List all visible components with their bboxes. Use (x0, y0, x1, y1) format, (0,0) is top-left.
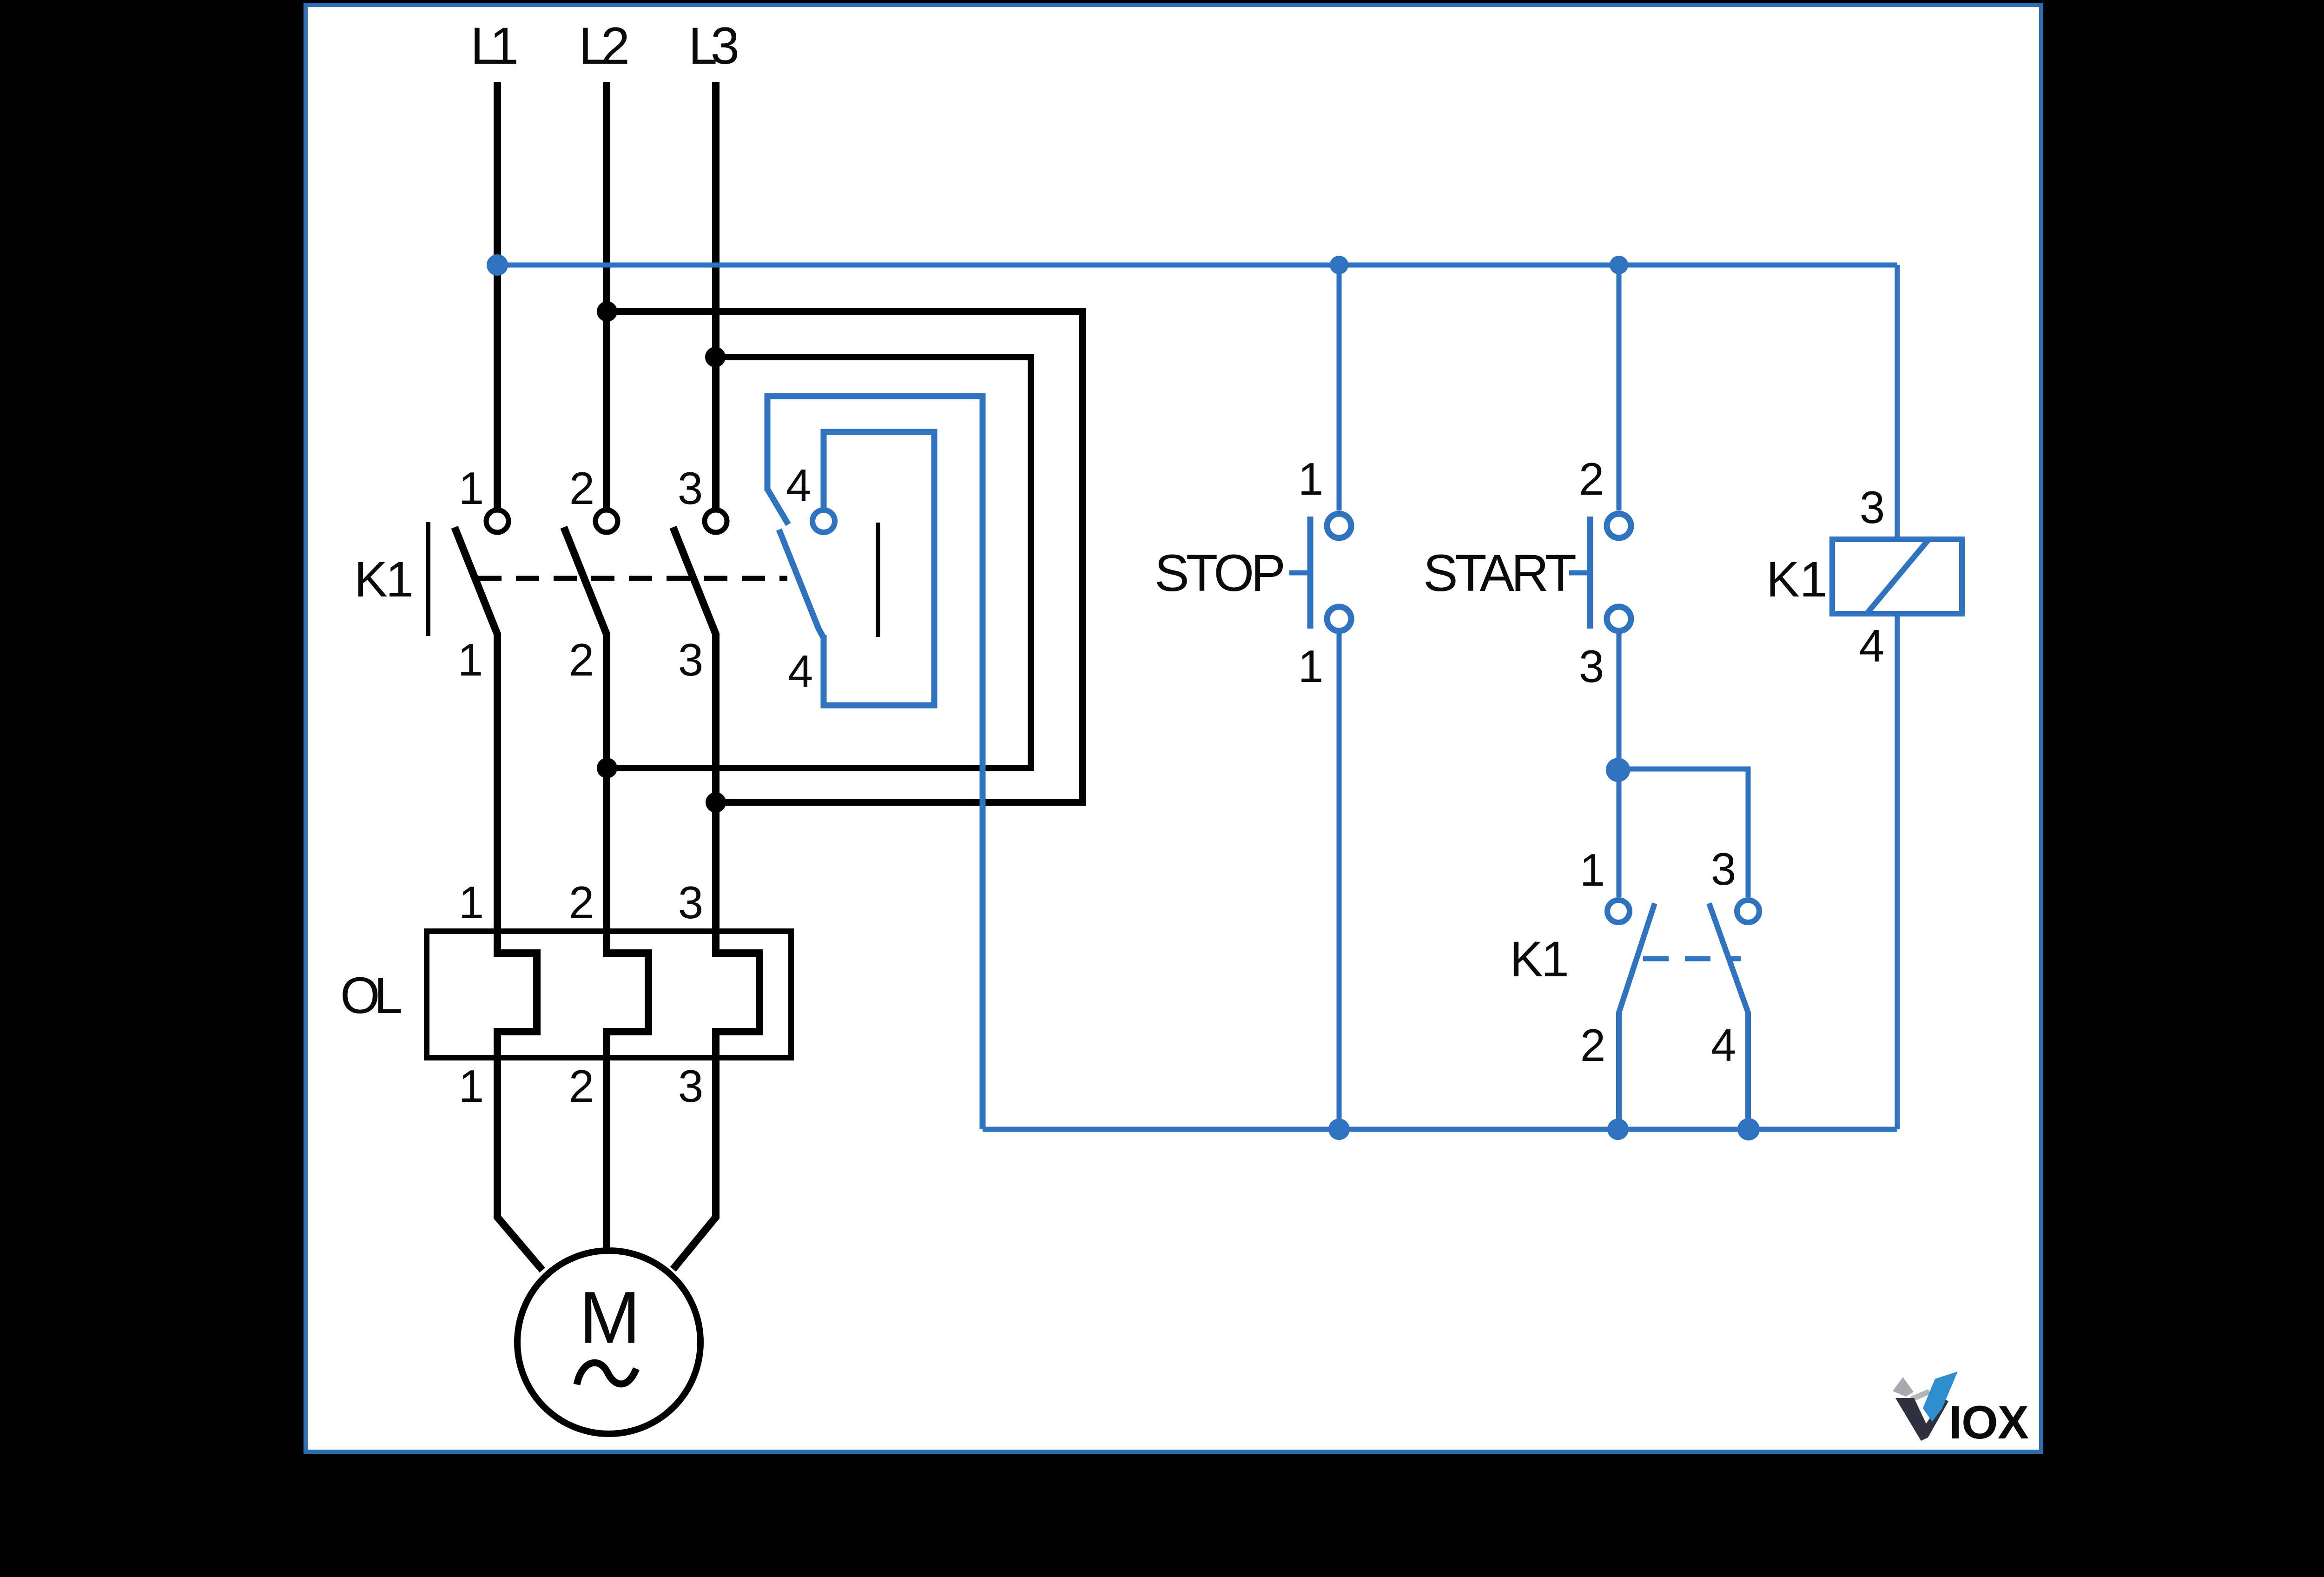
junction L1 / control rail (487, 254, 508, 276)
wire coil branch upper (1895, 265, 1900, 539)
START button actuator tick (1569, 570, 1587, 576)
K1 pole 4 fixed terminal circle (blue) (812, 510, 835, 532)
svg-text:2: 2 (1579, 453, 1604, 504)
K1 aux left blade and lead (1619, 903, 1655, 1129)
coil K1 body (1832, 539, 1962, 614)
svg-text:4: 4 (1859, 620, 1885, 671)
svg-text:1: 1 (458, 634, 483, 685)
svg-text:1: 1 (459, 463, 484, 514)
K1 aux right terminal circle (1737, 900, 1759, 922)
svg-text:3: 3 (1860, 482, 1885, 533)
wire L3 feeder (712, 82, 720, 508)
START upper terminal circle (1607, 514, 1631, 538)
wire L1 feeder (494, 82, 501, 508)
svg-text:4: 4 (786, 460, 812, 511)
svg-text:1: 1 (1580, 844, 1605, 895)
K1 pole 2 moving blade, lower lead, OL heater, motor lead (564, 527, 648, 1248)
Viox logo grey check tail (1910, 1389, 1931, 1401)
STOP button actuator bar (1307, 517, 1314, 629)
junction control rail / STOP branch (1330, 256, 1348, 274)
wire aux pole return (inner blue box) (824, 432, 934, 705)
junction return rail / STOP branch (1328, 1119, 1350, 1140)
junction control rail / START branch (1610, 256, 1628, 274)
K1 aux linkage dashed line (1643, 956, 1741, 961)
svg-text:K1: K1 (1766, 551, 1828, 607)
wire L2 feeder (603, 82, 610, 508)
svg-text:L3: L3 (688, 17, 739, 75)
svg-text:3: 3 (678, 1060, 704, 1112)
overload relay OL enclosure (427, 931, 791, 1058)
K1 aux right blade and lead (1709, 903, 1748, 1129)
K1 pole 3 moving blade, lower lead, OL heater, motor lead (673, 527, 759, 1269)
svg-text:3: 3 (1579, 641, 1604, 692)
Viox logo V mark dark body (1895, 1398, 1948, 1441)
START button branch wire (upper) (1617, 269, 1622, 510)
Viox logo V mark grey facet (1893, 1377, 1914, 1397)
diagram panel with blue frame (306, 5, 2041, 1452)
svg-text:4: 4 (1711, 1020, 1736, 1071)
K1 pole 1 moving blade, lower lead, OL heater, motor lead (455, 527, 542, 1270)
wire loop from L3 wrapping aux pole (inner black loop) (607, 357, 1031, 768)
K1 pole 2 fixed terminal circle (595, 510, 618, 532)
svg-text:3: 3 (678, 634, 704, 685)
STOP lower terminal circle (1327, 607, 1351, 631)
svg-text:START: START (1423, 544, 1577, 602)
svg-text:OL: OL (340, 967, 403, 1024)
K1 pole 4 actuator bar (black) (876, 523, 880, 637)
svg-text:L2: L2 (579, 17, 630, 75)
svg-text:2: 2 (569, 634, 594, 685)
junction START branch / seal-in branch (1606, 758, 1630, 782)
wire control return rail (bottom blue) (983, 1127, 1897, 1132)
svg-text:IOX: IOX (1949, 1397, 2029, 1449)
svg-text:1: 1 (459, 877, 484, 928)
wire loop from L2 wrapping aux pole (outer black loop) (607, 311, 1083, 802)
svg-text:3: 3 (1711, 843, 1736, 895)
contactor K1 linkage dashed line (478, 576, 787, 581)
Viox logo blue check (1923, 1372, 1958, 1422)
junction L2 / outer loop (597, 301, 617, 322)
svg-text:2: 2 (569, 1060, 594, 1112)
junction L3 / inner loop (705, 347, 726, 367)
svg-text:3: 3 (678, 877, 704, 928)
svg-text:2: 2 (569, 463, 595, 514)
K1 pole 3 fixed terminal circle (705, 510, 727, 532)
STOP button branch wire (lower) (1337, 634, 1342, 1129)
K1 pole 1 fixed terminal circle (486, 510, 508, 532)
svg-text:2: 2 (569, 877, 594, 928)
junction L2 / inner loop (597, 758, 617, 778)
motor AC tilde symbol (577, 1363, 636, 1385)
svg-text:4: 4 (788, 646, 813, 697)
START lower terminal circle (1607, 607, 1631, 631)
svg-text:K1: K1 (354, 551, 414, 607)
wire coil branch lower (1895, 614, 1900, 1129)
K1 pole 4 moving blade (blue) (767, 489, 824, 638)
contactor K1 actuator bar (426, 522, 430, 636)
STOP button actuator tick (1289, 570, 1307, 576)
motor M body (517, 1251, 700, 1434)
START button actuator bar (1587, 517, 1593, 629)
STOP upper terminal circle (1327, 514, 1351, 538)
svg-text:1: 1 (1298, 641, 1324, 692)
START button branch wire (lower) (1617, 634, 1622, 897)
svg-text:STOP: STOP (1155, 544, 1286, 602)
wire seal-in branch top (1618, 769, 1748, 897)
K1 aux left terminal circle (1607, 900, 1630, 922)
STOP button branch wire (upper) (1337, 269, 1342, 510)
coil K1 diagonal (1867, 540, 1928, 614)
junction L3 / outer loop (706, 792, 726, 813)
svg-text:L1: L1 (470, 17, 519, 75)
junction return rail / aux right lead (1737, 1118, 1760, 1140)
svg-text:1: 1 (459, 1060, 484, 1112)
wire control hot rail (top blue) (497, 263, 1897, 268)
svg-text:K1: K1 (1510, 931, 1569, 987)
svg-text:M: M (579, 1277, 640, 1358)
svg-text:2: 2 (1580, 1020, 1606, 1071)
svg-text:3: 3 (678, 463, 703, 514)
wire aux pole feed (outer blue box) (767, 396, 983, 1129)
svg-text:1: 1 (1298, 453, 1324, 504)
junction return rail / aux left lead (1607, 1119, 1629, 1140)
